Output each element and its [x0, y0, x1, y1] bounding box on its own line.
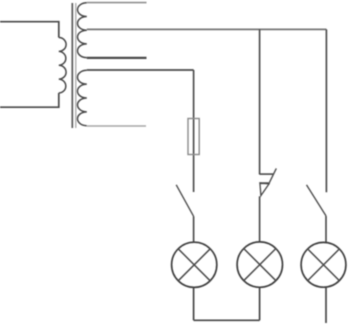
transformer core line left	[71, 3, 73, 128]
wire: switch S3 to lamp L3	[325, 216, 327, 242]
wire: vertical branch 2 from center-tap rail to switch S2	[259, 29, 261, 174]
wire: lamp L3 bottom stub	[325, 287, 327, 323]
wire: switch S1 to lamp L1	[193, 216, 195, 242]
transformer T1 primary winding	[59, 38, 66, 94]
transformer T1 secondary winding W3 (bottom)	[77, 70, 86, 125]
wire: secondary W3 top lead to fuse branch	[87, 69, 194, 71]
lamp L3	[301, 242, 346, 287]
transformer T1 primary bottom lead wire	[0, 93, 59, 107]
switch S3 (open) blade	[307, 185, 327, 216]
wire: bottom rail up to lamp L2	[259, 287, 261, 320]
wire: bottom rail between lamp L1 and lamp L2	[194, 319, 260, 321]
transformer core line right	[75, 3, 77, 128]
switch S2 blade	[269, 168, 277, 183]
wire: secondary W2 top lead	[87, 2, 147, 4]
wire: secondary W3 bottom lead	[87, 125, 146, 127]
fuse F1	[188, 119, 199, 155]
lamp L2	[237, 242, 282, 287]
switch S2 moving contact arrow (hollow triangle)	[260, 183, 269, 196]
switch S1 (open) blade	[176, 185, 193, 217]
transformer T1 secondary winding W2 (top, center-tapped)	[78, 3, 87, 58]
lamp L1	[172, 242, 217, 287]
wire: secondary W2 center tap to right rail	[87, 28, 327, 30]
wire: vertical branch 3 right rail corner down to switch S3	[325, 29, 327, 192]
wire: switch S2 to lamp L2	[259, 196, 261, 242]
wire: lamp L1 bottom to bottom rail	[193, 287, 195, 320]
wire: secondary W2 bottom lead	[87, 57, 147, 59]
wire: vertical branch 1 from lead through fuse to switch S1	[193, 70, 195, 192]
switch S2 fixed contact stub	[260, 173, 274, 175]
transformer T1 primary top lead wire	[0, 22, 59, 38]
